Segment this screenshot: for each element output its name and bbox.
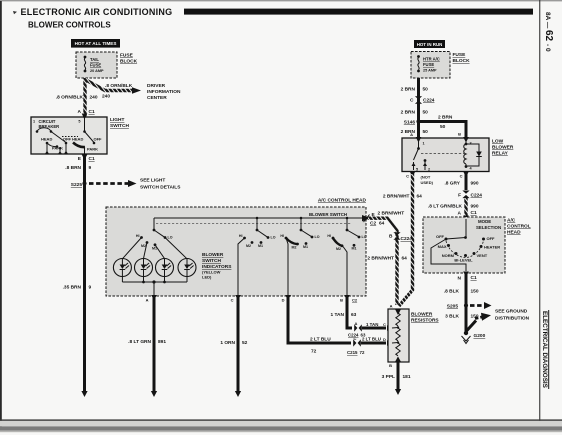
connector C224 pin C <box>410 96 435 104</box>
dashed arrow see ground distribution 1 <box>470 302 492 309</box>
svg-text:1 ORN: 1 ORN <box>220 340 235 346</box>
pin C control head <box>231 295 241 303</box>
relay exit C (switch) <box>406 172 415 179</box>
svg-text:CONTROL: CONTROL <box>507 224 531 230</box>
svg-text:1: 1 <box>423 142 425 146</box>
wire .8 GRY 990 <box>444 172 478 190</box>
svg-text:62: 62 <box>543 30 554 42</box>
svg-text:72: 72 <box>360 350 365 355</box>
node A C1 mode head <box>458 210 477 221</box>
svg-text:.8 BLK: .8 BLK <box>444 289 460 295</box>
relay pin 1 entry <box>416 137 425 146</box>
svg-text:A: A <box>78 109 82 115</box>
sidebar tab 8A-62-0 <box>543 12 554 52</box>
svg-text:64: 64 <box>379 221 385 227</box>
svg-text:3 PPL: 3 PPL <box>382 374 395 380</box>
svg-text:C1: C1 <box>89 109 95 115</box>
svg-text:1: 1 <box>33 120 35 124</box>
svg-text:C1: C1 <box>471 210 477 216</box>
relay mechanical link <box>421 153 464 155</box>
wire .8 ORN/BLK 240 fuse to light switch <box>56 78 98 118</box>
label LOW BLOWER RELAY <box>492 139 514 157</box>
connector C224 pin A <box>348 321 366 338</box>
resistor elements <box>389 304 401 369</box>
svg-text:B: B <box>389 234 393 240</box>
svg-text:.8 ORN/BLK: .8 ORN/BLK <box>56 95 84 101</box>
svg-text:S146: S146 <box>404 120 416 126</box>
wire 3 BLK 150 <box>445 306 479 334</box>
svg-text:.8 LT GRN: .8 LT GRN <box>128 339 151 345</box>
light switch contacts and arm <box>41 117 102 154</box>
svg-text:5: 5 <box>78 120 80 124</box>
svg-text:SWITCH: SWITCH <box>110 123 129 129</box>
svg-text:A: A <box>390 304 393 309</box>
svg-text:D: D <box>383 337 386 342</box>
svg-text:150: 150 <box>471 289 479 295</box>
svg-text:C2: C2 <box>352 298 358 303</box>
node N C1 exit <box>458 272 477 282</box>
svg-text:C1: C1 <box>89 156 95 162</box>
sidebar divider line <box>539 0 540 426</box>
blower resistors box <box>388 309 409 362</box>
svg-text:SEE LIGHT: SEE LIGHT <box>140 178 165 184</box>
svg-text:.8 ORN/BLK: .8 ORN/BLK <box>105 83 133 89</box>
svg-text:64: 64 <box>402 256 408 262</box>
svg-text:PARK: PARK <box>87 147 98 152</box>
svg-text:240: 240 <box>90 95 98 101</box>
wire .8 BLK 150 <box>444 274 479 306</box>
svg-text:M1: M1 <box>303 245 308 249</box>
svg-text:SWITCH: SWITCH <box>202 258 221 264</box>
svg-text:181: 181 <box>403 374 411 380</box>
svg-text:SELECTION: SELECTION <box>476 225 501 230</box>
page left border line <box>0 1 2 427</box>
label FUSE BLOCK (right) <box>453 52 471 64</box>
label FUSE BLOCK (left) <box>120 53 138 65</box>
svg-text:USED): USED) <box>421 180 434 185</box>
svg-text:8A —: 8A — <box>544 12 551 29</box>
wire 2 BRN 50 upper <box>401 78 429 138</box>
svg-text:BLOCK: BLOCK <box>120 59 138 65</box>
page bottom rule <box>0 419 562 426</box>
svg-text:HI: HI <box>327 234 331 238</box>
page top edge line <box>0 0 562 1</box>
svg-text:A/C CONTROL HEAD: A/C CONTROL HEAD <box>318 198 367 204</box>
svg-text:F: F <box>458 193 461 199</box>
svg-text:M1: M1 <box>258 244 263 248</box>
svg-text:HI: HI <box>239 234 243 238</box>
label HOT IN RUN <box>414 40 445 48</box>
fuse HTR A/C FUSE 25 AMP <box>417 55 440 72</box>
svg-text:DISTRIBUTION: DISTRIBUTION <box>495 316 530 322</box>
page bottom bar <box>0 426 562 432</box>
svg-text:C215: C215 <box>347 350 358 355</box>
relay clamp diode <box>466 144 482 166</box>
svg-text:50: 50 <box>440 124 446 130</box>
svg-text:A: A <box>458 211 462 217</box>
svg-text:20 AMP: 20 AMP <box>90 69 104 73</box>
svg-text:BLOWER: BLOWER <box>411 312 433 318</box>
svg-text:ELECTRICAL DIAGNOSIS: ELECTRICAL DIAGNOSIS <box>541 311 548 388</box>
svg-text:M2: M2 <box>336 247 341 251</box>
svg-text:2 LT BLU: 2 LT BLU <box>310 337 331 343</box>
svg-text:FUSE: FUSE <box>120 53 134 59</box>
svg-text:BLOCK: BLOCK <box>453 58 471 64</box>
svg-text:LIGHT: LIGHT <box>110 117 124 123</box>
wire branch .8 ORN/BLK 240 to DIC <box>86 80 141 100</box>
dashed arrow see light switch details <box>89 178 181 191</box>
svg-text:FUSE: FUSE <box>90 63 101 68</box>
svg-text:C2: C2 <box>370 221 376 227</box>
fuse block 1 box <box>76 52 117 78</box>
relay exit C (coil) <box>460 172 469 179</box>
fuse block 2 box <box>411 52 450 79</box>
svg-text:N: N <box>458 276 462 282</box>
svg-text:C: C <box>383 322 386 327</box>
svg-text:1 TAN: 1 TAN <box>330 312 344 318</box>
svg-text:LOW: LOW <box>492 139 504 145</box>
light switch pin 1 <box>33 120 35 124</box>
svg-text:G200: G200 <box>474 333 486 339</box>
dashed arrow see ground distribution 2 <box>466 313 491 332</box>
svg-text:C: C <box>406 174 409 179</box>
fuse TAIL FUSE 20 AMP <box>84 56 104 73</box>
svg-text:C224: C224 <box>401 236 413 242</box>
svg-text:50: 50 <box>423 87 429 93</box>
svg-text:OFF: OFF <box>487 236 496 241</box>
svg-text:240: 240 <box>102 94 110 100</box>
wire 2 BRN/WHT 64 head E to C224 B <box>367 218 407 305</box>
svg-text:(NOT: (NOT <box>421 175 431 180</box>
svg-text:LED): LED) <box>202 275 212 280</box>
svg-text:.35 BRN: .35 BRN <box>63 285 82 291</box>
svg-text:9: 9 <box>89 285 92 291</box>
svg-text:DRIVER: DRIVER <box>147 83 166 89</box>
relay coil <box>464 140 473 171</box>
wire .8 BRN 9 <box>65 156 91 184</box>
svg-text:2 BRN: 2 BRN <box>401 87 416 93</box>
svg-text:C224: C224 <box>348 333 359 338</box>
mechanical link dashed line <box>156 223 352 225</box>
label A/C CONTROL HEAD <box>318 198 367 204</box>
label DRIVER INFORMATION CENTER <box>147 83 181 101</box>
LED bottom bus wire <box>122 277 187 297</box>
svg-text:HTR A/C: HTR A/C <box>423 57 440 62</box>
svg-text:A: A <box>355 321 358 326</box>
svg-text:M2: M2 <box>141 244 146 248</box>
svg-text:CENTER: CENTER <box>147 95 167 101</box>
svg-text:M2: M2 <box>246 244 251 248</box>
svg-text:TAIL: TAIL <box>90 57 99 62</box>
svg-text:A: A <box>410 132 413 137</box>
svg-text:990: 990 <box>471 204 479 210</box>
label SEE GROUND DISTRIBUTION <box>495 309 530 322</box>
svg-text:M2: M2 <box>292 245 297 249</box>
svg-text:LO: LO <box>362 235 367 239</box>
svg-text:2 BRN/WHT: 2 BRN/WHT <box>383 194 410 200</box>
splice S205 <box>447 303 468 309</box>
wire 2 BRN 50 to relay A <box>401 129 462 137</box>
svg-text:S205: S205 <box>447 304 459 310</box>
relay switch <box>412 140 431 172</box>
svg-text:HI: HI <box>280 234 284 238</box>
wire 1 TAN to resistors <box>362 322 393 331</box>
svg-text:C: C <box>460 174 463 179</box>
label LIGHT SWITCH <box>110 117 129 129</box>
wire 2 BRN/WHT 64 relay C to resistors A <box>383 174 422 306</box>
LED indicator lamps <box>113 238 196 277</box>
node E C1 light switch <box>78 155 95 163</box>
title ELECTRONIC AIR CONDITIONING <box>21 7 173 17</box>
title black bar <box>184 9 533 15</box>
node E C2 exit arrow <box>362 211 404 227</box>
svg-text:ELECTRONIC AIR CONDITIONING: ELECTRONIC AIR CONDITIONING <box>21 7 173 17</box>
svg-text:S225: S225 <box>71 182 83 188</box>
svg-text:HI: HI <box>136 234 140 238</box>
svg-text:B: B <box>458 132 461 137</box>
blower switch group 1 (LED section) <box>136 218 173 251</box>
svg-text:1 TAN: 1 TAN <box>366 322 378 327</box>
svg-text:.8 LT GRN/BLK: .8 LT GRN/BLK <box>428 204 463 210</box>
svg-text:M1: M1 <box>352 247 357 251</box>
connector C215 pin C <box>347 336 365 355</box>
wire .35 BRN 9 down <box>63 184 92 398</box>
svg-text:5: 5 <box>416 168 418 172</box>
svg-text:MAX: MAX <box>438 244 447 249</box>
svg-text:BLOWER: BLOWER <box>202 252 224 258</box>
svg-text:B: B <box>340 298 343 303</box>
relay contact not used <box>421 175 434 186</box>
svg-text:HOT AT ALL TIMES: HOT AT ALL TIMES <box>75 41 117 46</box>
wire 2 LT BLU to resistors <box>361 337 393 346</box>
ground G200 <box>462 331 486 344</box>
svg-text:LO: LO <box>271 236 276 240</box>
svg-text:BI-LEVEL: BI-LEVEL <box>454 257 473 262</box>
connector C224 pin B <box>389 232 412 242</box>
mode selector switch <box>431 219 500 271</box>
svg-text:RESISTORS: RESISTORS <box>411 318 439 324</box>
blower switch group 3 <box>280 218 319 296</box>
wire 2 LT BLU 72 <box>288 298 351 355</box>
svg-text:990: 990 <box>471 181 479 187</box>
svg-text:OFF: OFF <box>94 137 103 142</box>
title bullet <box>13 11 17 14</box>
svg-text:9: 9 <box>89 165 92 171</box>
svg-text:50: 50 <box>423 110 429 116</box>
light switch pin 5 entry <box>78 114 87 124</box>
svg-text:SEE GROUND: SEE GROUND <box>495 309 528 315</box>
blower switch group 4 <box>327 218 366 296</box>
wire 1 ORN 52 <box>220 298 247 397</box>
svg-text:INFORMATION: INFORMATION <box>147 89 181 95</box>
svg-text:C: C <box>231 298 234 303</box>
relay pin 3 entry <box>463 137 471 146</box>
blower switch bus wire <box>154 217 364 220</box>
splice S225 <box>71 181 87 188</box>
svg-text:B: B <box>389 363 392 368</box>
svg-text:HEAD: HEAD <box>507 230 521 236</box>
label HOT AT ALL TIMES <box>71 39 120 48</box>
svg-text:NORM: NORM <box>442 253 455 258</box>
splice S146 <box>404 119 421 125</box>
svg-text:3 BLK: 3 BLK <box>445 314 459 320</box>
svg-text:BLOWER SWITCH: BLOWER SWITCH <box>309 212 347 217</box>
pin D control head <box>282 295 291 303</box>
svg-text:2 BRN: 2 BRN <box>401 129 416 135</box>
svg-text:2 BRN: 2 BRN <box>401 110 416 116</box>
wire 2 BRN 50 branch to relay B <box>419 115 467 138</box>
svg-text:OFF: OFF <box>436 234 445 239</box>
svg-text:2: 2 <box>428 168 430 172</box>
svg-text:2 BRN/WHT: 2 BRN/WHT <box>367 256 394 262</box>
pin B C2 control head <box>340 295 358 303</box>
svg-text:A/C: A/C <box>507 218 516 224</box>
svg-text:2 BRN/WHT: 2 BRN/WHT <box>378 211 405 217</box>
blower switch group 2 <box>238 218 276 296</box>
pin A control head <box>146 295 157 303</box>
wire 2 BRN 50 middle <box>401 110 429 116</box>
label A/C CONTROL HEAD (mode) <box>507 218 531 236</box>
svg-text:SWITCH DETAILS: SWITCH DETAILS <box>140 185 181 191</box>
connector C224 pin F <box>458 191 482 199</box>
svg-text:C: C <box>410 98 414 104</box>
svg-text:52: 52 <box>242 340 248 346</box>
svg-text:FUSE: FUSE <box>423 62 434 67</box>
svg-text:BLOWER: BLOWER <box>492 145 514 151</box>
svg-text:63: 63 <box>351 312 357 318</box>
svg-text:BLOWER CONTROLS: BLOWER CONTROLS <box>28 21 111 30</box>
svg-text:25 AMP: 25 AMP <box>423 69 437 73</box>
label BLOWER SWITCH INDICATORS <box>202 252 232 280</box>
svg-text:C1: C1 <box>471 275 477 281</box>
light switch box <box>31 117 107 154</box>
A/C control head box 2 (mode) <box>423 217 505 273</box>
svg-text:RELAY: RELAY <box>492 151 509 157</box>
svg-text:63: 63 <box>361 333 366 338</box>
svg-text:C224: C224 <box>423 98 435 104</box>
svg-text:LO: LO <box>168 236 173 240</box>
svg-text:64: 64 <box>417 194 423 200</box>
A/C control head box 1 <box>106 207 366 296</box>
svg-text:.8 GRY: .8 GRY <box>444 181 460 187</box>
node A C1 light switch <box>78 109 95 115</box>
svg-text:- 0: - 0 <box>544 44 551 52</box>
svg-text:2 BRN: 2 BRN <box>438 115 453 121</box>
sidebar label ELECTRICAL DIAGNOSIS <box>541 310 549 389</box>
circuit breaker <box>36 119 60 133</box>
label BLOWER SWITCH <box>309 212 347 217</box>
wire .8 LT GRN 891 <box>128 298 166 397</box>
svg-text:HEAD: HEAD <box>72 137 83 142</box>
svg-text:FUSE: FUSE <box>453 52 467 58</box>
wire 3 PPL 181 <box>382 362 411 395</box>
svg-text:C224: C224 <box>471 193 483 199</box>
svg-text:D: D <box>282 298 285 303</box>
low blower relay box <box>402 138 489 172</box>
svg-text:OFF: OFF <box>63 137 72 142</box>
label MODE SELECTION <box>476 219 501 230</box>
label BLOWER RESISTORS <box>411 312 439 324</box>
svg-text:HEATER: HEATER <box>484 245 500 250</box>
svg-text:MODE: MODE <box>478 219 491 224</box>
svg-text:LO: LO <box>315 235 320 239</box>
subtitle BLOWER CONTROLS <box>28 21 111 30</box>
svg-text:VENT: VENT <box>477 253 488 258</box>
svg-text:50: 50 <box>423 129 429 135</box>
svg-text:HOT IN RUN: HOT IN RUN <box>417 42 443 47</box>
svg-text:HEAD: HEAD <box>41 137 52 142</box>
wire 1 TAN 63 <box>330 298 356 328</box>
svg-text:891: 891 <box>158 339 166 345</box>
wire .8 LT GRN/BLK 990 <box>428 198 479 217</box>
svg-text:72: 72 <box>311 349 317 355</box>
svg-text:.8 BRN: .8 BRN <box>65 165 81 171</box>
svg-text:A: A <box>146 298 149 303</box>
